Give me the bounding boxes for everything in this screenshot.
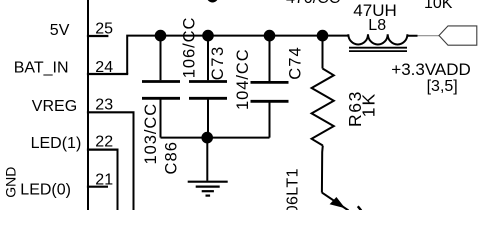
transistor Q? emitter arrow — [322, 193, 349, 211]
node dot3 rail / C74 — [264, 30, 276, 42]
svg-text:104/CC: 104/CC — [234, 48, 252, 110]
wire R63 to transistor — [321, 146, 324, 193]
node dot2 rail / C73 — [202, 30, 214, 42]
svg-text:21: 21 — [95, 171, 113, 188]
svg-text:L8: L8 — [368, 17, 386, 34]
capacitor C74 top wire — [269, 36, 271, 82]
bottom gnd rail wire — [161, 137, 270, 139]
pin 23 stub — [87, 111, 135, 113]
svg-text:C74: C74 — [286, 46, 304, 80]
svg-text:103/CC: 103/CC — [142, 103, 160, 165]
svg-text:23: 23 — [95, 96, 113, 113]
capacitor C74 plates — [251, 81, 289, 84]
wire pin23 vertical to bottom edge — [133, 112, 135, 210]
svg-text:[3,5]: [3,5] — [427, 78, 458, 95]
svg-text:LED(0): LED(0) — [20, 182, 71, 199]
resistor R63 zigzag — [312, 69, 334, 146]
svg-text:06LT1: 06LT1 — [285, 168, 302, 210]
ground stem — [206, 138, 208, 181]
node dot gnd rail — [201, 132, 213, 144]
node dot4 rail / R63 — [317, 30, 329, 42]
svg-text:5V: 5V — [50, 22, 70, 39]
power tag +3.3VADD pentagon — [439, 26, 477, 45]
svg-text:106/CC: 106/CC — [180, 17, 198, 79]
svg-text:10K: 10K — [424, 0, 453, 12]
inductor L8 coil — [348, 34, 417, 44]
capacitor C86 top wire — [160, 36, 162, 81]
svg-text:VREG: VREG — [32, 98, 77, 115]
wire pin22 vertical to bottom edge — [117, 150, 119, 210]
thin lead to power tag — [418, 35, 440, 37]
capacitor C73 plates — [189, 80, 227, 83]
junction dot at top edge (cut off) — [207, 0, 219, 3]
transistor base bar (partial) — [358, 206, 361, 210]
wire pin24 riser — [127, 36, 348, 74]
capacitor C73 bottom wire — [207, 100, 209, 138]
pin 22 stub — [87, 149, 119, 151]
IC U? body left edge — [87, 0, 89, 210]
capacitor C86 bottom wire — [160, 100, 162, 138]
svg-text:BAT_IN: BAT_IN — [14, 59, 69, 76]
capacitor C74 bottom wire — [269, 103, 271, 138]
capacitor C73 top wire — [207, 36, 209, 81]
svg-text:LED(1): LED(1) — [31, 135, 82, 152]
svg-text:C73: C73 — [209, 45, 227, 80]
svg-text:1K: 1K — [358, 92, 378, 117]
node dot1 5V rail / C86 — [155, 30, 167, 42]
svg-text:C86: C86 — [163, 141, 181, 175]
resistor R63 top wire — [322, 36, 324, 69]
capacitor C86 plates — [142, 80, 180, 83]
svg-text:24: 24 — [95, 59, 113, 76]
svg-text:470/CC: 470/CC — [286, 0, 340, 7]
svg-text:22: 22 — [95, 133, 113, 150]
pin 21 stub — [87, 186, 108, 188]
svg-text:GND: GND — [3, 167, 19, 198]
pin 25 stub — [87, 35, 109, 37]
svg-text:+3.3VADD: +3.3VADD — [391, 60, 471, 79]
svg-text:25: 25 — [95, 21, 113, 38]
pin 24 stub — [87, 73, 128, 75]
inductor L8 core bars — [349, 47, 407, 49]
ground symbol — [188, 181, 228, 183]
